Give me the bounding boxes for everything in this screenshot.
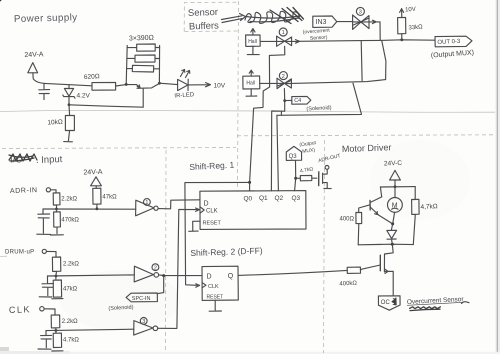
section divider dashed horizontal left bbox=[2, 148, 236, 149]
resistor block 3x390 left rail bbox=[126, 46, 127, 85]
capacitor C1 bbox=[39, 83, 50, 99]
wire DRUM to series resistor bbox=[46, 251, 56, 257]
pin CLK bbox=[200, 207, 204, 213]
section divider faint horizontal mid bbox=[0, 110, 495, 112]
resistor 4.7kOhm gate bbox=[300, 175, 317, 180]
oc tag glyph bbox=[392, 299, 396, 305]
tag OUT 0-3 bbox=[435, 36, 472, 47]
svg-text:RESET: RESET bbox=[207, 295, 224, 301]
svg-text:OUT 0-3: OUT 0-3 bbox=[437, 39, 461, 46]
section divider dashed horizontal right bbox=[237, 135, 494, 136]
node bottom rail bbox=[391, 243, 394, 246]
wire hall2 top arrow bbox=[249, 70, 253, 76]
wire Q0 bus to SR2 clk bbox=[185, 182, 250, 287]
buffer amp 2 number bbox=[279, 72, 287, 80]
svg-text:DRUM-uP: DRUM-uP bbox=[5, 250, 34, 256]
wire SR2 Q to gate resistor bbox=[238, 270, 347, 275]
node C4 junction bbox=[283, 99, 286, 102]
resistor 10kOhm bbox=[65, 105, 74, 141]
wire hall2 ground bbox=[246, 89, 257, 96]
svg-text:10kΩ: 10kΩ bbox=[47, 119, 63, 127]
Hall sensor 2 box bbox=[243, 76, 260, 89]
svg-text:CLK: CLK bbox=[206, 209, 218, 215]
wire ADR row horizontal bbox=[43, 208, 136, 210]
tag IN3 bbox=[313, 16, 337, 27]
terminal DRUM bbox=[42, 249, 46, 253]
wire buffer3 output arrow to node bbox=[369, 20, 380, 40]
wire inverter2 out to SR2 D bbox=[159, 274, 202, 277]
section divider dashed vertical center-top bbox=[238, 1, 239, 190]
ground tick res bbox=[52, 298, 63, 300]
motor top rail bbox=[380, 186, 415, 188]
svg-text:2.2kΩ: 2.2kΩ bbox=[63, 262, 79, 268]
node inverter2 out bbox=[162, 274, 165, 277]
node top rail bbox=[394, 185, 397, 188]
diode freewheel bbox=[387, 224, 397, 244]
paper blotches bbox=[60, 270, 180, 330]
scribble crossed-out sensors bbox=[245, 11, 299, 23]
svg-text:IN3: IN3 bbox=[316, 19, 327, 26]
node bus buffer2 riser bbox=[0, 0, 1, 1]
tag OC overcurrent bbox=[378, 296, 400, 310]
ground tick cap bbox=[38, 348, 51, 350]
node motor bottom bbox=[391, 222, 394, 225]
svg-text:47kΩ: 47kΩ bbox=[63, 287, 78, 293]
resistor 400kOhm gate bbox=[347, 267, 360, 273]
wire stub to lower horizontal bbox=[280, 111, 282, 115]
wire Q0 pin stub bbox=[249, 182, 251, 191]
section divider dashed vertical right bbox=[324, 140, 325, 353]
resistor 470kOhm bbox=[54, 209, 61, 234]
terminal ADR-OUT bbox=[325, 166, 329, 170]
wire hall2 to buffer bbox=[260, 82, 277, 84]
shift register 1 box bbox=[200, 191, 306, 230]
capacitor CLK filter bbox=[41, 331, 52, 348]
svg-text:. Input: . Input bbox=[36, 154, 63, 166]
terminal CLK bbox=[40, 307, 44, 311]
buffer amp 1 number bbox=[279, 28, 287, 36]
transistor motor PNP bbox=[369, 200, 371, 210]
inverter 2 bbox=[134, 266, 153, 282]
resistor 4.7kOhm right bbox=[412, 187, 420, 245]
transistor Q1 bbox=[136, 83, 159, 107]
svg-text:Sensor: Sensor bbox=[188, 7, 218, 19]
ground tick res bbox=[51, 234, 64, 236]
svg-text:CLK: CLK bbox=[9, 304, 31, 315]
shift register 2 box bbox=[202, 266, 238, 300]
IR-LED emission arrows bbox=[181, 70, 190, 78]
wire output 10V arrow bbox=[188, 83, 211, 87]
wire rail to motor bbox=[393, 187, 395, 224]
svg-text:Q3: Q3 bbox=[289, 154, 298, 160]
svg-text:3: 3 bbox=[359, 10, 362, 16]
svg-text:Q0: Q0 bbox=[244, 196, 253, 203]
node right of transistor bbox=[158, 82, 161, 85]
wire supply rail bbox=[33, 73, 92, 86]
wire CLK net vertical bbox=[158, 208, 200, 328]
motor bottom rail bbox=[358, 243, 413, 246]
inverter 1 bbox=[136, 200, 154, 216]
svg-text:2.2kΩ: 2.2kΩ bbox=[62, 319, 78, 325]
mosfet power channel bbox=[384, 254, 393, 296]
svg-text:RESET: RESET bbox=[203, 221, 222, 227]
wire C4 node to Q1 riser bbox=[271, 111, 284, 191]
resistor 47kOhm pullup bbox=[93, 188, 101, 208]
wire buffer1 bottom to Q0 riser bbox=[250, 46, 285, 182]
buffer amp 3 number bbox=[356, 7, 364, 15]
svg-text:47kΩ: 47kΩ bbox=[102, 195, 117, 201]
node bus 33k bbox=[400, 38, 403, 41]
svg-text:1: 1 bbox=[145, 200, 148, 206]
tag C4 bbox=[292, 96, 311, 104]
wire base to 400 bbox=[359, 205, 370, 213]
pin CLK bbox=[202, 283, 206, 288]
wire CLK row horizontal bbox=[46, 329, 134, 330]
svg-text:3: 3 bbox=[142, 319, 145, 325]
svg-text:3×390Ω: 3×390Ω bbox=[129, 35, 154, 43]
svg-text:10V: 10V bbox=[405, 7, 416, 14]
wire to IR-LED bbox=[159, 83, 177, 84]
svg-text:4.2V: 4.2V bbox=[77, 93, 91, 100]
svg-text:10V: 10V bbox=[214, 83, 226, 90]
capacitor ADR filter bbox=[38, 209, 50, 233]
svg-text:Buffers: Buffers bbox=[189, 20, 220, 32]
terminal ADR-IN bbox=[46, 188, 50, 192]
paper faint mark left edge bbox=[0, 255, 7, 257]
mosfet ADR-OUT channel bbox=[323, 169, 328, 187]
wire lower horizontal to OUT bus riser bbox=[277, 83, 362, 115]
ground tick res bbox=[52, 350, 63, 352]
wire Q2 riser bbox=[277, 115, 279, 191]
power symbol 24V-A triangle bbox=[28, 63, 38, 73]
svg-text:Q2: Q2 bbox=[275, 195, 284, 202]
node CLK junction bbox=[55, 329, 58, 332]
wire rail to mosfet drain bbox=[385, 244, 394, 254]
wire hall1 top arrow bbox=[251, 29, 255, 35]
wire Q3 riser bbox=[295, 160, 296, 190]
power symbol 24V-A triangle bbox=[91, 177, 102, 186]
svg-text:470kΩ: 470kΩ bbox=[61, 218, 79, 224]
resistor 4.7kOhm bbox=[53, 331, 61, 348]
ground tick mosfet bbox=[324, 187, 331, 189]
resistor 47kOhm bbox=[53, 276, 61, 297]
mosfet power gate bar bbox=[379, 255, 381, 271]
svg-text:Power supply: Power supply bbox=[14, 12, 78, 25]
mosfet ADR-OUT gate bar bbox=[318, 172, 320, 186]
wire to SPC tag bbox=[158, 276, 164, 294]
svg-text:Q1: Q1 bbox=[259, 195, 268, 202]
wire gate to resistor bbox=[360, 265, 380, 270]
mosfet source arrow bbox=[385, 269, 388, 273]
wire SR2 ground bbox=[209, 300, 221, 311]
resistor 620 Ohm bbox=[92, 82, 116, 90]
svg-text:Q3: Q3 bbox=[292, 195, 301, 202]
wire IN3 to buffer3 bbox=[337, 21, 353, 23]
ground tick cap bbox=[37, 233, 51, 235]
stray mark bbox=[462, 302, 470, 304]
capacitor DRUM filter bbox=[42, 276, 53, 296]
svg-text:Motor Driver: Motor Driver bbox=[342, 142, 392, 154]
scribble crossed out bbox=[410, 307, 441, 311]
wire to 47k bbox=[95, 186, 97, 189]
resistor 2.2kOhm series bbox=[52, 257, 60, 276]
ground tick below 10k bbox=[64, 141, 73, 143]
wire hall1 ground bbox=[247, 46, 259, 54]
zener diode 4.2V bbox=[63, 85, 75, 105]
wire C4 tag lead bbox=[285, 99, 292, 101]
wire hall1 to buffer bbox=[260, 40, 276, 42]
svg-text:2: 2 bbox=[282, 74, 285, 80]
Hall sensor 1 box bbox=[246, 35, 261, 46]
node ADR junction bbox=[55, 208, 58, 211]
wire reset to ground bbox=[189, 221, 200, 231]
svg-text:Q: Q bbox=[228, 273, 234, 280]
inverter 3 bbox=[134, 321, 153, 336]
svg-text:4,7kΩ: 4,7kΩ bbox=[420, 203, 438, 211]
svg-text:Hall: Hall bbox=[248, 39, 257, 45]
svg-text:2: 2 bbox=[154, 265, 157, 271]
buffer amp 3 bowtie bbox=[353, 15, 369, 29]
node zener junction bbox=[68, 103, 71, 106]
svg-text:620Ω: 620Ω bbox=[84, 73, 100, 81]
wire rail to transistor collector bbox=[380, 187, 381, 197]
paper smudge bottom-left bbox=[0, 347, 9, 354]
svg-text:24V-C: 24V-C bbox=[384, 160, 403, 168]
svg-text:400kΩ: 400kΩ bbox=[339, 281, 357, 288]
paper edge shading right bbox=[496, 0, 500, 354]
power symbol 24V-C triangle bbox=[390, 170, 401, 180]
node DRUM junction bbox=[55, 275, 58, 278]
ground tick cap bbox=[39, 296, 52, 298]
sensor buffers dashed box bbox=[184, 2, 239, 31]
wire buffer2 output rising to bus bbox=[291, 41, 386, 84]
buffer amp 1 bowtie bbox=[277, 36, 292, 46]
node Q3 branch bbox=[294, 177, 297, 180]
svg-text:OC: OC bbox=[381, 300, 391, 306]
resistor 400 Ohm base bbox=[356, 212, 362, 244]
svg-text:24V-A: 24V-A bbox=[24, 51, 44, 59]
svg-text:4.7kΩ: 4.7kΩ bbox=[63, 338, 79, 344]
resistor 33kOhm bbox=[398, 17, 406, 39]
svg-text:33kΩ: 33kΩ bbox=[408, 24, 423, 31]
wire buffer1 output arrow bbox=[292, 40, 300, 44]
node pullup junction bbox=[96, 207, 99, 210]
resistor block 3x390 right rail bbox=[158, 46, 160, 84]
svg-text:1: 1 bbox=[282, 30, 285, 36]
tag Q3 output mux bbox=[286, 146, 301, 160]
svg-text:400Ω: 400Ω bbox=[340, 217, 355, 223]
svg-text:D: D bbox=[204, 201, 209, 208]
double arrow to sensors bbox=[222, 14, 246, 23]
node left of 3x390 bbox=[125, 83, 128, 86]
resistor 2.2kOhm series bbox=[51, 315, 60, 330]
buffer amp 2 bowtie bbox=[277, 78, 291, 88]
wire Q3 to gate resistor bbox=[296, 177, 301, 179]
wire buffer2 bottom to C4 node bbox=[283, 89, 285, 112]
resistor 390 Ohm b bbox=[127, 55, 160, 62]
sensor output bus bbox=[300, 40, 435, 42]
motor M circle bbox=[388, 198, 403, 213]
svg-text:2.2kΩ: 2.2kΩ bbox=[61, 197, 77, 203]
svg-text:Hall: Hall bbox=[246, 81, 255, 87]
wire 10V arrow up bbox=[400, 9, 404, 18]
resistor 390 Ohm a bbox=[127, 44, 159, 51]
resistor 390 Ohm c bbox=[127, 65, 160, 72]
svg-text:SPC-IN: SPC-IN bbox=[132, 296, 151, 302]
wire 620 to transistor bbox=[116, 85, 137, 86]
svg-text:C4: C4 bbox=[294, 98, 301, 104]
node Q0 junction bbox=[248, 181, 251, 184]
tag SPC-IN bbox=[126, 293, 157, 302]
wire ADR-IN to series resistor bbox=[51, 190, 57, 193]
svg-text:24V-A: 24V-A bbox=[83, 169, 103, 177]
wire feedback to emitter bbox=[69, 105, 143, 107]
svg-text:CLK: CLK bbox=[208, 284, 219, 290]
resistor 2.2kOhm series bbox=[53, 193, 60, 209]
paper edge shading bottom bbox=[0, 352, 500, 354]
wire CLK to series resistor bbox=[44, 309, 55, 315]
wire inverter1 out to SR1 D bbox=[158, 200, 200, 209]
IR-LED diode bbox=[178, 79, 189, 90]
wire DRUM row horizontal bbox=[48, 275, 135, 276]
section divider dashed vertical left bbox=[165, 150, 168, 353]
svg-text:D: D bbox=[207, 274, 212, 281]
wire 24V-C to rail bbox=[394, 180, 396, 187]
svg-text:ADR-IN: ADR-IN bbox=[10, 187, 38, 195]
